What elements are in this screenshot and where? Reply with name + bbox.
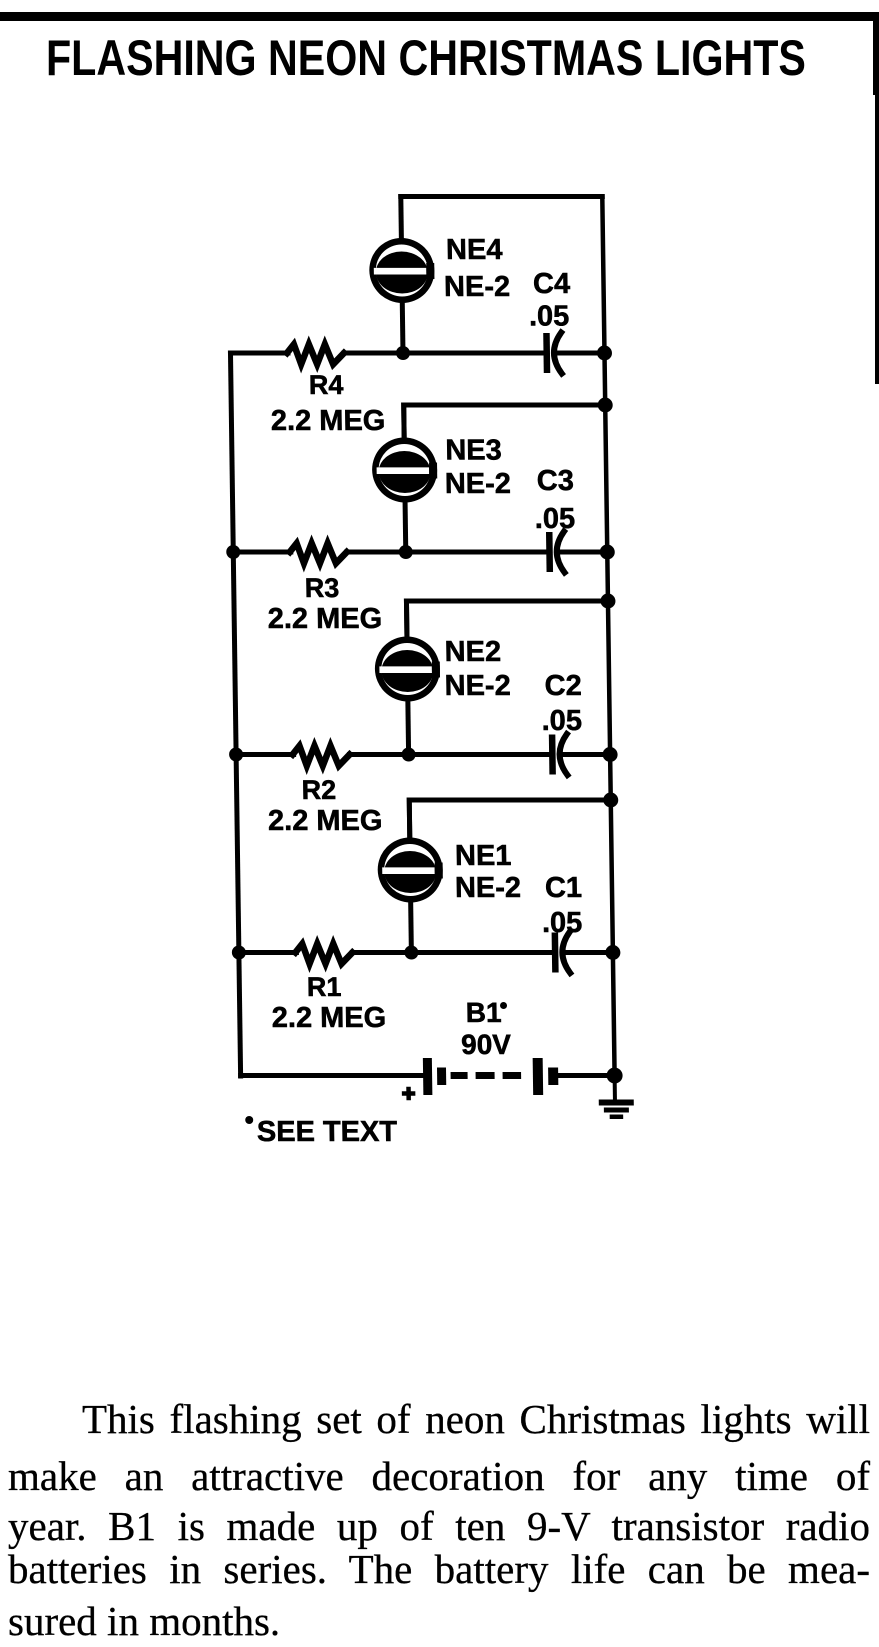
node dot R1-bus xyxy=(605,945,620,960)
svg-text:.05: .05 xyxy=(535,503,576,535)
svg-text:NE4: NE4 xyxy=(446,234,503,266)
label SEE TEXT asterisk dot xyxy=(245,1116,253,1124)
svg-text:90V: 90V xyxy=(461,1029,512,1060)
node dot R1-left xyxy=(232,946,246,960)
svg-text:C3: C3 xyxy=(537,465,575,497)
svg-text:NE-2: NE-2 xyxy=(445,468,512,500)
node dot R3-lamp xyxy=(399,545,413,559)
row R1 wires xyxy=(239,950,297,955)
svg-text:SEE TEXT: SEE TEXT xyxy=(257,1116,398,1148)
wire right bus xyxy=(602,197,614,1076)
wire left bus xyxy=(230,353,240,1076)
svg-text:2.2 MEG: 2.2 MEG xyxy=(267,603,382,635)
ground xyxy=(598,1076,634,1120)
capacitor C3 xyxy=(546,532,565,573)
svg-text:NE-2: NE-2 xyxy=(455,872,522,904)
wire NE3 top bracket xyxy=(404,405,606,437)
svg-text:2.2 MEG: 2.2 MEG xyxy=(268,805,383,837)
battery B1 xyxy=(423,1058,559,1095)
wire battery row right xyxy=(558,1073,615,1078)
node dot R3-bus xyxy=(600,545,615,560)
svg-text:NE-2: NE-2 xyxy=(444,271,511,303)
svg-text:C2: C2 xyxy=(544,670,582,702)
wire top horizontal xyxy=(401,194,602,199)
node dot R2-lamp xyxy=(402,748,416,762)
resistor R3 xyxy=(290,543,347,563)
svg-text:C4: C4 xyxy=(533,268,571,300)
row R4 wires xyxy=(230,351,287,356)
wire battery row left xyxy=(241,1073,424,1078)
node dot R4-lamp xyxy=(396,346,410,360)
svg-text:.05: .05 xyxy=(529,301,570,333)
svg-text:NE1: NE1 xyxy=(455,840,512,872)
svg-text:R1: R1 xyxy=(307,972,342,1002)
wire NE1 top bracket xyxy=(409,800,611,837)
svg-text:NE2: NE2 xyxy=(444,636,501,668)
wire NE2 top bracket xyxy=(406,601,608,636)
row R3 wires xyxy=(233,550,291,555)
row R2 wires xyxy=(236,752,294,757)
svg-text:NE3: NE3 xyxy=(445,435,502,467)
node dot R2-bus xyxy=(603,747,618,762)
svg-text:C1: C1 xyxy=(545,872,583,904)
neon lamp NE1 xyxy=(377,800,444,953)
body paragraph xyxy=(8,1395,870,1647)
node dot bracket2-bus xyxy=(600,594,615,609)
top border bar xyxy=(0,12,879,21)
node dot R1-lamp xyxy=(404,946,418,960)
capacitor C4 xyxy=(543,333,562,374)
neon lamp NE3 xyxy=(371,405,438,552)
svg-text:2.2 MEG: 2.2 MEG xyxy=(272,1002,387,1034)
svg-text:.05: .05 xyxy=(542,907,583,939)
node dot bracket1-bus xyxy=(603,793,618,808)
svg-text:R3: R3 xyxy=(305,573,340,603)
node dot bracket3-bus xyxy=(598,398,613,413)
neon lamp NE2 xyxy=(374,601,441,755)
node dot R3-left xyxy=(226,545,240,559)
node dot battery-bus xyxy=(606,1068,622,1084)
svg-text:R4: R4 xyxy=(309,370,344,400)
resistor R1 xyxy=(295,944,352,964)
node dot R4-bus xyxy=(597,346,612,361)
resistor R4 xyxy=(287,344,344,364)
neon lamp NE4 xyxy=(368,197,435,354)
svg-text:R2: R2 xyxy=(301,775,336,805)
resistor R2 xyxy=(292,746,349,766)
capacitor C1 xyxy=(552,932,571,973)
battery plus sign xyxy=(402,1087,416,1101)
capacitor C2 xyxy=(549,734,568,775)
svg-text:NE-2: NE-2 xyxy=(444,670,511,702)
svg-text:2.2 MEG: 2.2 MEG xyxy=(271,405,386,437)
node dot R2-left xyxy=(229,748,243,762)
right border line xyxy=(873,12,879,95)
label B1 asterisk dot xyxy=(500,1002,507,1009)
svg-text:.05: .05 xyxy=(541,705,582,737)
title xyxy=(46,29,806,87)
svg-text:B1: B1 xyxy=(466,997,502,1028)
